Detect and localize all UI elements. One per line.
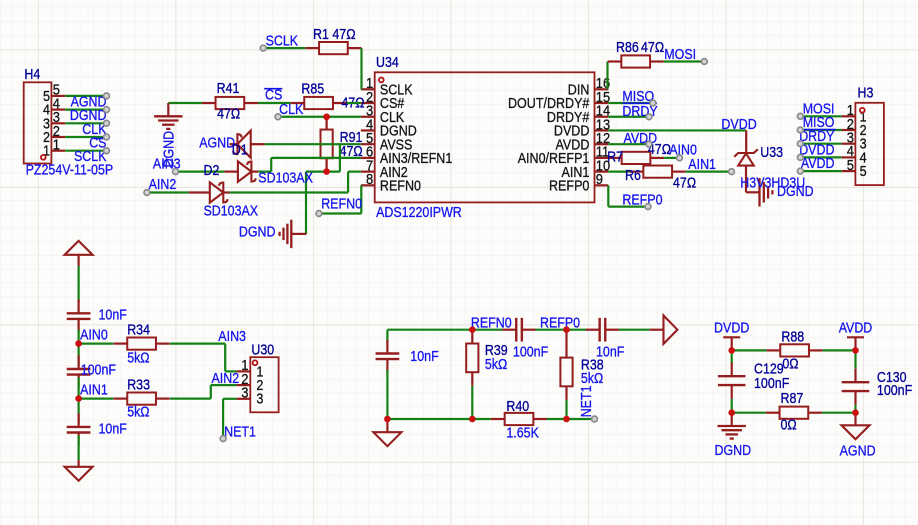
svg-text:AIN2: AIN2 (149, 177, 177, 193)
svg-text:D1: D1 (232, 142, 248, 158)
svg-text:1: 1 (53, 138, 60, 154)
svg-text:AIN2: AIN2 (212, 371, 240, 387)
svg-text:AIN3: AIN3 (218, 329, 246, 345)
svg-text:R41: R41 (217, 81, 240, 97)
svg-text:REFP0: REFP0 (549, 179, 589, 195)
svg-text:R40: R40 (506, 399, 529, 415)
svg-text:47Ω: 47Ω (641, 40, 664, 56)
svg-text:R7: R7 (607, 150, 623, 166)
svg-text:REFN0: REFN0 (471, 315, 512, 331)
svg-text:REFP0: REFP0 (622, 192, 662, 208)
svg-text:R6: R6 (625, 168, 641, 184)
svg-text:NET1: NET1 (579, 385, 595, 417)
svg-text:R85: R85 (301, 81, 324, 97)
svg-text:DGND: DGND (715, 443, 752, 459)
svg-text:5kΩ: 5kΩ (581, 371, 604, 387)
svg-text:5kΩ: 5kΩ (127, 404, 150, 420)
svg-text:MOSI: MOSI (664, 47, 696, 63)
svg-text:SD103AX: SD103AX (258, 170, 313, 186)
svg-text:47Ω: 47Ω (673, 175, 696, 191)
svg-text:AVDD: AVDD (839, 320, 873, 336)
svg-text:100nF: 100nF (81, 362, 117, 378)
svg-text:0Ω: 0Ω (782, 357, 798, 373)
svg-text:SCLK: SCLK (74, 149, 107, 165)
svg-text:100nF: 100nF (754, 376, 790, 392)
svg-text:R88: R88 (781, 329, 804, 345)
svg-text:AGND: AGND (840, 444, 876, 460)
svg-text:9: 9 (596, 172, 603, 188)
svg-text:5kΩ: 5kΩ (485, 357, 508, 373)
svg-text:R34: R34 (127, 322, 150, 338)
svg-text:DVDD: DVDD (721, 117, 756, 133)
svg-text:R33: R33 (127, 377, 150, 393)
svg-text:3: 3 (241, 386, 248, 402)
svg-text:100nF: 100nF (877, 383, 913, 399)
svg-text:10nF: 10nF (99, 421, 128, 437)
svg-text:5kΩ: 5kΩ (127, 351, 150, 367)
svg-text:U34: U34 (376, 55, 399, 71)
svg-text:REFP0: REFP0 (540, 315, 580, 331)
svg-text:U33: U33 (760, 145, 783, 161)
svg-text:5: 5 (860, 164, 867, 180)
svg-text:H3: H3 (858, 86, 874, 102)
svg-text:1.65K: 1.65K (506, 426, 539, 442)
svg-text:AIN1: AIN1 (80, 383, 108, 399)
svg-text:U30: U30 (251, 343, 274, 359)
svg-text:AIN1: AIN1 (688, 157, 716, 173)
svg-text:DGND: DGND (777, 184, 814, 200)
svg-text:SD103AX: SD103AX (204, 203, 259, 219)
svg-text:CLK: CLK (279, 102, 304, 118)
svg-text:R86: R86 (616, 40, 639, 56)
svg-text:AGND: AGND (199, 136, 235, 152)
svg-text:AVDD: AVDD (801, 156, 835, 172)
svg-text:AIN0: AIN0 (80, 328, 108, 344)
svg-text:DVDD: DVDD (714, 320, 749, 336)
svg-text:REFN0: REFN0 (321, 197, 362, 213)
svg-text:SCLK: SCLK (266, 33, 299, 49)
svg-text:D2: D2 (204, 163, 220, 179)
svg-text:NET1: NET1 (224, 424, 256, 440)
svg-text:3: 3 (256, 392, 263, 408)
svg-text:100nF: 100nF (513, 345, 549, 361)
svg-text:8: 8 (366, 172, 373, 188)
svg-text:5: 5 (847, 158, 854, 174)
svg-text:47Ω: 47Ω (217, 106, 240, 122)
svg-text:10nF: 10nF (410, 349, 439, 365)
svg-text:R1 47Ω: R1 47Ω (313, 27, 356, 43)
svg-text:ADS1220IPWR: ADS1220IPWR (376, 205, 462, 221)
svg-text:R87: R87 (781, 391, 804, 407)
svg-text:0Ω: 0Ω (781, 418, 797, 434)
svg-text:DGND: DGND (239, 224, 276, 240)
svg-text:10nF: 10nF (99, 308, 128, 324)
svg-text:H4: H4 (24, 67, 40, 83)
svg-text:REFN0: REFN0 (380, 179, 421, 195)
